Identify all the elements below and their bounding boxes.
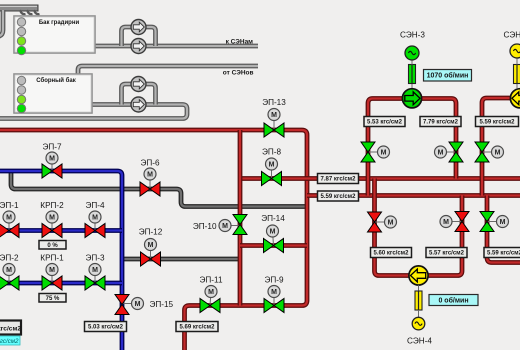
СЭН-4 coupling [415,291,422,310]
valve КРП-1 [51,270,53,284]
svg-text:ЭП-9: ЭП-9 [264,276,283,285]
svg-text:М: М [271,289,277,296]
svg-text:ЭП-7: ЭП-7 [42,143,61,152]
dark pipe ЭП-12 line y259 [122,257,240,262]
svg-text:М: М [49,267,55,274]
СЭН-5 left branch valve [482,151,498,153]
valve ЭП-6 [149,174,151,189]
svg-text:ЭП-15: ЭП-15 [150,300,174,309]
LEDs tank 1 [17,18,25,26]
svg-text:М: М [147,172,153,179]
svg-text:ЭП-2: ЭП-2 [0,254,19,263]
svg-text:5.59 кгс/см2: 5.59 кгс/см2 [487,251,520,257]
svg-text:ЭП-4: ЭП-4 [85,201,104,210]
pipe from cooling tower down at left edge [0,10,3,37]
svg-text:кгс/см2: кгс/см2 [0,326,21,333]
svg-text:СЭН-5: СЭН-5 [504,31,520,40]
svg-text:ЭП-6: ЭП-6 [140,159,159,168]
svg-text:5.59 кгс/см2: 5.59 кгс/см2 [321,194,357,200]
svg-text:СЭН-3: СЭН-3 [400,31,425,40]
box 5.59 кгс/см2 mid [318,191,359,201]
svg-text:КРП-2: КРП-2 [40,201,64,210]
box 5.59 кгс/см2 top right [476,117,519,127]
valve КРП-2 [51,217,53,231]
pump loop 2 [122,84,156,105]
СЭН-3 link2 [411,60,413,65]
svg-text:Сборный бак: Сборный бак [36,77,75,84]
valve ЭП-9 [273,292,275,306]
svg-text:СЭН-4: СЭН-4 [407,337,432,346]
svg-text:М: М [6,267,12,274]
tank box Бак градирни [14,16,95,53]
svg-text:кгс/см2: кгс/см2 [0,338,19,345]
СЭН-5 link2 [516,58,518,65]
red СЭН-5 lower branch to right edge [487,196,520,263]
box 75% [39,294,66,303]
cut cyan box bottom left [0,336,20,345]
pipe к СЭНам y46 [95,44,258,49]
svg-text:М: М [92,215,98,222]
svg-text:0 %: 0 % [47,243,58,249]
blue row 2 y283 [0,281,122,286]
svg-text:М: М [269,162,275,169]
СЭН-3 motor circle [405,46,419,60]
svg-text:М: М [270,229,276,236]
pump B2 [131,97,146,112]
СЭН-4 motor circle [412,317,425,330]
СЭН-3 coupling link [411,84,413,88]
svg-text:М: М [6,215,12,222]
svg-text:5.59 кгс/см2: 5.59 кгс/см2 [480,120,516,126]
СЭН-4 link2 [418,310,420,317]
valve ЭП-3 [94,270,96,284]
svg-text:М: М [500,219,506,226]
svg-text:М: М [49,215,55,222]
cut gray box bottom left [0,321,21,335]
svg-text:7.87 кгс/см2: 7.87 кгс/см2 [321,177,357,183]
red vertical x240 [238,130,243,306]
svg-text:ЭП-3: ЭП-3 [85,254,104,263]
red header 5.59 y195.5 [307,193,520,198]
box 5.57 кгс/см2 [426,248,467,258]
valve ЭП-4 [94,217,96,231]
box 5.03 кгс/см2 [85,322,127,332]
СЭН-4 right branch valve [446,221,462,223]
red СЭН-4 U loop [375,179,463,276]
svg-text:М: М [148,242,154,249]
svg-text:5.53 кгс/см2: 5.53 кгс/см2 [367,120,403,126]
red СЭН-3 loop [368,99,456,196]
red ЭП-14 line y245.5 [240,243,307,248]
svg-text:ЭП-10: ЭП-10 [193,222,217,231]
svg-text:М: М [438,150,444,157]
LEDs tank 2 [17,76,25,84]
svg-text:М: М [381,150,387,157]
box 1070 об/мин [424,70,472,82]
valve ЭП-7 [51,158,53,171]
svg-text:М: М [443,219,449,226]
pump B1 [131,77,146,92]
dark pipe ЭП-6 line from blue header down and right to x307 [11,172,308,207]
cooling tower sprinkler icon [0,5,40,14]
svg-text:ЭП-8: ЭП-8 [262,148,281,157]
box 5.69 кгс/см2 [176,322,218,332]
СЭН-5 link [516,84,518,88]
svg-text:0 об/мин: 0 об/мин [438,297,468,305]
svg-text:М: М [222,223,228,230]
tank box Сборный бак [14,74,92,113]
СЭН-5 coupling [514,65,520,84]
svg-text:М: М [208,289,214,296]
svg-text:Бак градирни: Бак градирни [39,20,80,26]
svg-text:М: М [495,150,501,157]
СЭН-3 left branch valve [368,151,384,153]
valve ЭП-14 [273,231,274,246]
СЭН-4 left branch valve [375,221,391,223]
СЭН-5 motor circle [510,44,520,58]
pump СЭН-4 [409,266,428,285]
box 0% [39,241,66,250]
blue row 1 y230.5 [0,228,122,233]
pump A2 [131,39,146,54]
СЭН-3 right branch valve [441,151,457,153]
svg-text:М: М [135,301,141,308]
red СЭН-5 loop partial [482,98,520,196]
svg-text:7.79 кгс/см2: 7.79 кгс/см2 [423,120,459,126]
valve ЭП-8 [271,164,273,179]
svg-text:ЭП-11: ЭП-11 [200,276,223,285]
valve ЭП-2 [8,270,10,284]
valve ЭП-10 [225,225,240,227]
valve ЭП-12 [150,245,152,260]
svg-text:ЭП-1: ЭП-1 [0,201,19,210]
svg-text:КРП-1: КРП-1 [40,254,64,263]
svg-text:5.03 кгс/см2: 5.03 кгс/см2 [88,325,124,331]
svg-text:ЭП-12: ЭП-12 [139,228,163,237]
valve ЭП-15 [122,303,138,305]
svg-text:М: М [388,220,394,227]
box 7.79 кгс/см2 [420,117,461,127]
pump СЭН-3 [402,89,421,108]
red header 7.87 y178.5 [240,176,520,181]
valve ЭП-13 [273,115,275,131]
pump СЭН-5 partial [510,89,520,108]
svg-text:5.69 кгс/см2: 5.69 кгс/см2 [180,325,216,331]
box 5.60 кгс/см2 [371,248,412,258]
box 7.87 кгс/см2 [318,174,359,184]
svg-text:75 %: 75 % [46,296,60,302]
svg-text:от СЭНов: от СЭНов [223,70,254,77]
blue header y171 with vertical x122 [0,171,122,350]
svg-text:5.60 кгс/см2: 5.60 кгс/см2 [374,251,410,257]
pump loop 1 [122,27,156,46]
svg-text:5.57 кгс/см2: 5.57 кгс/см2 [429,251,465,257]
svg-text:М: М [49,156,55,163]
box 5.59 кгс/см2 bottom right [484,248,520,258]
svg-text:М: М [92,267,98,274]
box 0 об/мин [429,295,478,306]
valve ЭП-1 [8,217,10,231]
svg-text:к СЭНам: к СЭНам [226,39,254,46]
pipe от СЭНов y66 [78,66,258,74]
СЭН-3 coupling [409,65,416,84]
red main line y130 down x307 to y305 line and x184 drop [0,130,307,350]
svg-text:1070 об/мин: 1070 об/мин [427,72,469,80]
bottom right green branch valve [487,221,503,223]
pipe from Сборный бак with return to left edge [0,105,187,119]
pump A1 [131,20,146,35]
svg-text:ЭП-13: ЭП-13 [262,98,286,107]
СЭН-4 link [418,285,420,291]
box 5.53 кгс/см2 [364,117,405,127]
svg-text:М: М [271,112,277,119]
valve ЭП-11 [210,292,211,306]
svg-text:ЭП-14: ЭП-14 [261,214,285,223]
